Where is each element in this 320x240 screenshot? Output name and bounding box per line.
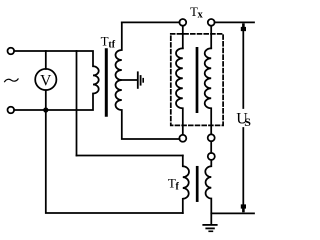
transformer T_tf core bbox=[105, 50, 108, 116]
wire bottom right rail bbox=[211, 212, 254, 214]
wire lead left terminal into dashed box bbox=[182, 26, 184, 49]
transformer Tx left winding bbox=[176, 48, 183, 135]
wire from junction down and right to T_f primary bottom bbox=[46, 110, 183, 213]
wire voltmeter top lead bbox=[45, 51, 47, 69]
node connector below box left bbox=[179, 135, 186, 142]
arrowhead Us bottom bbox=[241, 204, 246, 212]
ground (chassis, pointing right) bbox=[137, 72, 139, 88]
wire top-left rail + T_tf primary winding + bottom-left rail bbox=[14, 51, 99, 110]
arrowhead Us top bbox=[241, 23, 246, 31]
transformer Tx right winding bbox=[205, 48, 212, 134]
AC source tilde bbox=[5, 79, 19, 82]
svg-text:tf: tf bbox=[108, 39, 115, 50]
wire top rail to Tx left terminal bbox=[122, 21, 180, 23]
wire vertical from top rail down to T_f feed bbox=[76, 51, 78, 156]
op voltmeter V1 circle bbox=[35, 69, 56, 90]
wire T_tf secondary centre tap to ground bbox=[122, 79, 137, 81]
transformer Tx core bbox=[196, 48, 199, 111]
junction dot voltmeter/bottom rail bbox=[43, 107, 48, 112]
wire top rail from Tx right terminal to Us arrow bbox=[215, 21, 254, 23]
terminal upper-left input bbox=[8, 48, 15, 55]
svg-text:S: S bbox=[244, 115, 251, 129]
wire lead right terminal into dashed box bbox=[210, 26, 212, 49]
measurement arrow Us lower segment bbox=[242, 128, 244, 206]
node connector below box right bbox=[208, 134, 215, 141]
transformer T_f secondary winding + lead to ground bbox=[205, 160, 211, 224]
dashed box around Tx equivalent transformer bbox=[171, 34, 223, 126]
svg-text:V: V bbox=[40, 72, 52, 89]
transformer T_f core bbox=[196, 167, 199, 200]
measurement arrow Us upper segment bbox=[242, 31, 244, 109]
wire between stacked connectors bbox=[210, 141, 212, 153]
terminal lower-left input bbox=[8, 107, 15, 114]
wire horizontal feed to T_f primary top bbox=[77, 155, 183, 157]
node Tx right terminal bbox=[208, 19, 215, 26]
transformer T_f primary winding bbox=[183, 156, 189, 214]
node Tx left terminal bbox=[179, 19, 186, 26]
node connector above T_f secondary bbox=[208, 153, 215, 160]
ground below T_f bbox=[203, 224, 216, 226]
svg-text:T: T bbox=[101, 34, 109, 49]
wire voltmeter bottom lead bbox=[45, 90, 47, 110]
transformer T_tf secondary winding with leads bbox=[115, 22, 179, 139]
svg-text:x: x bbox=[198, 9, 204, 20]
